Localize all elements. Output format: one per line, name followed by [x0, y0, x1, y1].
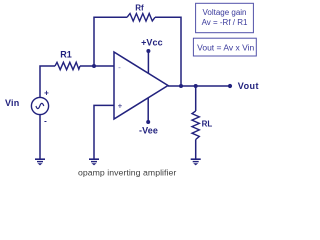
- node: RL junction on output: [194, 84, 198, 88]
- svg-text:+Vcc: +Vcc: [141, 37, 163, 47]
- wire: feedback loop right leg down to output node: [155, 17, 181, 86]
- source V1 (Vin AC source): [31, 97, 48, 114]
- node: Vout terminal dot: [228, 84, 232, 88]
- svg-text:-Vee: -Vee: [139, 126, 158, 136]
- svg-text:Vin: Vin: [5, 98, 19, 108]
- annotation box: output formula: [193, 38, 256, 56]
- svg-text:+: +: [118, 102, 123, 111]
- svg-text:opamp inverting amplifier: opamp inverting amplifier: [78, 168, 176, 178]
- ground: RL: [191, 159, 201, 165]
- wire: op-amp output run to Vout terminal: [168, 85, 230, 87]
- svg-text:-: -: [118, 63, 121, 72]
- resistor R1: [55, 62, 80, 69]
- svg-text:-: -: [44, 117, 47, 126]
- svg-text:+: +: [44, 88, 49, 97]
- wire: R1 to op-amp inverting input: [80, 65, 114, 67]
- svg-text:Vout: Vout: [238, 81, 259, 91]
- resistor RL: [192, 111, 199, 140]
- svg-text:R1: R1: [60, 50, 72, 60]
- svg-text:Voltage gain: Voltage gain: [202, 8, 246, 17]
- resistor Rf: [127, 14, 155, 22]
- ground: source: [35, 159, 45, 165]
- wire: RL bottom lead to ground: [195, 140, 197, 160]
- node: feedback junction on output: [179, 84, 183, 88]
- wire: feedback loop left leg and top run: [94, 17, 127, 66]
- node: junction of R1, Rf and inverting input: [92, 64, 96, 68]
- annotation box: voltage gain formula: [196, 3, 254, 32]
- svg-text:Av = -Rf / R1: Av = -Rf / R1: [202, 18, 248, 27]
- svg-text:Vout = Av x Vin: Vout = Av x Vin: [197, 42, 254, 52]
- svg-text:RL: RL: [202, 119, 213, 128]
- pin +Vcc: supply lead and terminal dot: [146, 49, 150, 73]
- wire: output node down to RL: [195, 86, 197, 111]
- ground: non-inverting input: [89, 159, 99, 165]
- wire: source bottom lead to ground: [39, 115, 41, 159]
- wire: Vin source top lead up to R1 input: [40, 66, 55, 97]
- pin -Vee: supply lead and terminal dot: [146, 98, 150, 124]
- svg-text:Rf: Rf: [135, 3, 144, 12]
- wire: non-inverting input to ground: [94, 105, 114, 159]
- op-amp U1 triangle: [114, 52, 168, 119]
